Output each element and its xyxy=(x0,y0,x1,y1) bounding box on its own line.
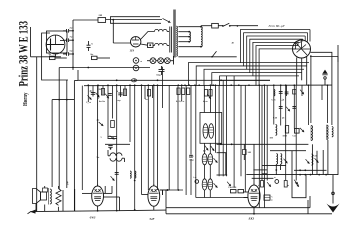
capacitor row2a xyxy=(279,106,283,108)
wire V6 top stem xyxy=(253,144,255,184)
svg-text:5ω: 5ω xyxy=(145,99,148,101)
capacitor C10 xyxy=(279,91,283,93)
wire drop x113 xyxy=(112,20,114,43)
ground arrow xyxy=(332,175,334,204)
wire y170 segment xyxy=(294,169,327,171)
wire y190 taps xyxy=(160,189,183,191)
tube V6 xyxy=(248,185,260,207)
tube V3 electrodes xyxy=(293,48,310,50)
tube V1 electrodes xyxy=(47,44,64,46)
bottom rect right xyxy=(309,196,311,208)
svg-text:Prinz 38 W E 133: Prinz 38 W E 133 xyxy=(16,21,30,87)
wire V4 right xyxy=(104,196,120,198)
coil above V5 a xyxy=(130,171,131,178)
resistor R7 xyxy=(111,121,115,128)
resistor R6 xyxy=(204,90,207,97)
wire V1 left bracket xyxy=(42,33,68,80)
wire V4 grid xyxy=(82,192,92,194)
wire node x73 xyxy=(72,20,74,70)
wire x162 drop xyxy=(162,190,164,195)
bottom bus main xyxy=(31,210,167,212)
wire loop y23.3 xyxy=(111,20,162,24)
tube V3 circle xyxy=(293,40,311,58)
capacitor above V4 xyxy=(115,172,119,174)
wire V1 bottom drop xyxy=(55,54,57,57)
svg-text:4ω: 4ω xyxy=(97,120,100,122)
tube V2 electrodes xyxy=(132,39,139,41)
wire V5 left xyxy=(142,194,148,196)
arrow r5 xyxy=(305,158,311,164)
coil L1 main winding xyxy=(176,26,177,56)
resistor R5 xyxy=(177,88,180,95)
wire speaker bottoms xyxy=(35,204,37,212)
wire vertical forest xyxy=(87,85,89,102)
fuse on bus xyxy=(131,79,136,82)
bus junction dots xyxy=(87,84,89,86)
arrow b8 xyxy=(266,181,272,187)
resistor Rb1 xyxy=(261,181,264,188)
resistor R4 xyxy=(123,89,126,96)
wire L4 ends xyxy=(107,150,109,156)
svg-text:4ω 2ω: 4ω 2ω xyxy=(99,101,105,103)
wire V6 left xyxy=(244,191,249,193)
svg-text:EK3: EK3 xyxy=(248,216,255,220)
wire V2 right bottom xyxy=(141,44,148,45)
tube V4 xyxy=(92,186,104,206)
svg-text:⊥ω: ⊥ω xyxy=(193,176,197,179)
wire V6 stem xyxy=(253,207,255,214)
wire V3 right xyxy=(311,52,332,60)
svg-text:Pot 1kΩ: Pot 1kΩ xyxy=(229,187,237,189)
arrow mid3 xyxy=(299,127,305,133)
svg-text:7w: 7w xyxy=(70,36,73,39)
wire bus y174 xyxy=(246,174,338,176)
resistor R9 xyxy=(285,126,288,134)
coil L7 xyxy=(327,125,328,139)
arrow pair A xyxy=(213,157,219,163)
wire bus y80 xyxy=(78,79,270,81)
antenna A1 xyxy=(322,70,327,74)
svg-text:0,1 0,5 ω: 0,1 0,5 ω xyxy=(176,101,185,103)
wire right drops xyxy=(311,144,313,174)
resistor R1 xyxy=(98,18,106,23)
component arrows a xyxy=(95,92,101,98)
main bus xyxy=(84,84,332,87)
output transformer T4 xyxy=(43,188,48,192)
wire B1 B2 row xyxy=(55,57,67,59)
IF can outline xyxy=(200,113,222,144)
svg-text:6,3: 6,3 xyxy=(203,151,206,153)
tube V5 xyxy=(148,186,160,206)
coil L6 xyxy=(311,126,313,141)
resistor Rb2 xyxy=(284,181,287,188)
svg-text:5w: 5w xyxy=(70,50,73,53)
capacitor at V1 mid xyxy=(66,38,68,42)
capacitor at V1 bottom xyxy=(66,52,68,56)
coil L3 xyxy=(201,27,202,47)
coil pair CL1 xyxy=(276,154,277,165)
svg-text:8ω: 8ω xyxy=(91,54,94,56)
arrow into core xyxy=(162,17,171,24)
component box B1 xyxy=(50,56,56,59)
field coil zigzag xyxy=(56,189,61,206)
arrow mid xyxy=(206,93,212,99)
wire left verticals xyxy=(36,57,38,212)
wire y165 y170 xyxy=(262,164,286,166)
tube V1 envelope box xyxy=(47,31,68,53)
wire can right xyxy=(217,153,226,175)
circle j5 xyxy=(195,180,199,184)
bottom rect lower xyxy=(166,213,332,215)
IF T2 arrows xyxy=(204,145,210,151)
wire y99 left xyxy=(52,99,74,101)
component box with dot xyxy=(148,43,154,48)
tube V3 pins xyxy=(296,58,298,86)
wire bus y70 xyxy=(59,67,150,69)
svg-text:1M: 1M xyxy=(99,89,102,91)
wire V2 left xyxy=(113,42,130,44)
IF transformer T1 primary xyxy=(155,29,168,31)
coil L8 xyxy=(332,127,333,137)
arrow b7 xyxy=(226,181,232,187)
coil L1 core xyxy=(173,10,175,58)
switch S1 xyxy=(218,23,258,26)
svg-text:54F: 54F xyxy=(150,217,155,221)
capacitor C6 xyxy=(87,44,91,46)
wire box left xyxy=(292,151,306,198)
nested band wiring xyxy=(188,30,310,86)
jack J1 xyxy=(133,58,139,64)
arrow trimmer 2 xyxy=(299,89,305,95)
svg-text:5ω: 5ω xyxy=(97,157,100,159)
circle j6 xyxy=(275,180,279,184)
wire right verticals xyxy=(331,60,333,125)
svg-text:0,1µ: 0,1µ xyxy=(157,74,162,77)
oscillator coil pair A xyxy=(202,154,207,165)
tube V2 circle xyxy=(131,37,141,47)
coil C16col xyxy=(274,89,275,96)
wire bus y144 left xyxy=(105,143,130,145)
svg-text:Horny: Horny xyxy=(22,92,29,106)
svg-text:0,1µ: 0,1µ xyxy=(190,160,195,162)
capacitor C9 xyxy=(118,92,122,94)
arrow pair B xyxy=(213,182,219,188)
component box 140 xyxy=(243,150,247,155)
coil above V5 b xyxy=(135,171,136,178)
capacitor at V1 top xyxy=(66,29,68,33)
IF transformer T1 secondary xyxy=(155,43,168,45)
wire V5 right xyxy=(160,189,168,191)
wire L1 taps xyxy=(178,26,201,28)
resistor R3 xyxy=(101,89,104,96)
wire top tap xyxy=(201,25,212,27)
svg-text:2w: 2w xyxy=(70,27,73,30)
component box B2 xyxy=(92,56,98,59)
oscillator coil pair B xyxy=(202,179,207,190)
resistor R12 xyxy=(264,195,270,200)
resistor mid x149 xyxy=(147,90,150,97)
capacitor x110 xyxy=(108,93,112,95)
coil L2 xyxy=(189,32,190,42)
resistor R10 xyxy=(295,129,300,134)
wire bus y144 right xyxy=(217,143,309,145)
component box r1 xyxy=(293,90,296,95)
tube V1 circle xyxy=(46,35,65,54)
pot boxes xyxy=(231,190,237,193)
svg-text:1Z4: 1Z4 xyxy=(130,50,135,53)
IF transformer T2 xyxy=(203,124,208,139)
wire mid stem xyxy=(165,190,167,208)
wire top bus y20 xyxy=(73,19,98,21)
arrow R7 xyxy=(98,121,104,127)
wire y197.5 xyxy=(196,197,248,199)
arrow b9 xyxy=(294,181,300,187)
wire y178 xyxy=(252,177,274,179)
capacitor C11 xyxy=(108,145,112,147)
wire T1 leads xyxy=(141,32,155,40)
coil L9 xyxy=(312,154,313,165)
bottom bus arrow xyxy=(30,210,36,214)
arrow r4 xyxy=(283,158,289,164)
resistor R2 xyxy=(212,23,219,28)
capacitor C8 xyxy=(91,92,95,94)
capacitor C7 xyxy=(159,69,165,71)
speaker LS xyxy=(33,189,41,204)
svg-text:C₄ ·ω: C₄ ·ω xyxy=(86,102,92,104)
switch S2 xyxy=(212,51,217,57)
wire V5 stem xyxy=(153,206,155,210)
bus y80b xyxy=(221,79,271,81)
wire left edge xyxy=(30,27,32,57)
trimmer cap xyxy=(108,137,118,139)
IF transformer T1 core xyxy=(169,27,171,53)
svg-text:Fern 80–µF: Fern 80–µF xyxy=(268,24,286,28)
wire loop y16.7 xyxy=(111,17,161,20)
coil L4 xyxy=(110,153,122,156)
wire V4 stem xyxy=(97,206,99,211)
bottom rect upper xyxy=(166,207,310,209)
jack J2 xyxy=(133,65,139,71)
svg-text:·1W3: ·1W3 xyxy=(89,215,96,219)
svg-text:C21: C21 xyxy=(293,136,297,138)
capacitor on x191 xyxy=(189,154,193,156)
dial lamps xyxy=(150,58,156,64)
wire y80 left xyxy=(74,80,78,82)
svg-text:4µ ω: 4µ ω xyxy=(203,101,208,103)
coil L5 xyxy=(276,125,277,136)
